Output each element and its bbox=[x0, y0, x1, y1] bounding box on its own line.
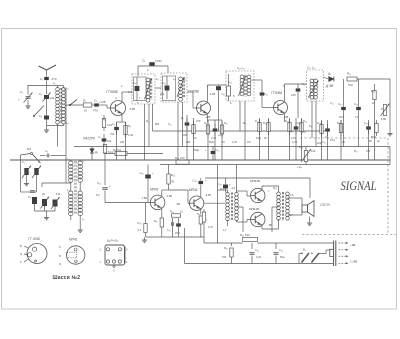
svg-text:5·: 5· bbox=[233, 94, 235, 98]
svg-text:R₂₅: R₂₅ bbox=[138, 221, 142, 225]
svg-text:C₃₂: C₃₂ bbox=[279, 248, 283, 252]
svg-text:R₂₀: R₂₀ bbox=[354, 150, 358, 153]
svg-text:10К: 10К bbox=[311, 149, 316, 153]
svg-text:6,8К: 6,8К bbox=[381, 117, 387, 121]
svg-text:Э: Э bbox=[20, 252, 22, 256]
svg-text:50Д: 50Д bbox=[209, 141, 214, 144]
svg-text:680: 680 bbox=[155, 123, 160, 126]
svg-text:3К: 3К bbox=[171, 180, 174, 184]
svg-text:4,7К: 4,7К bbox=[232, 140, 238, 144]
svg-text:R₁: R₁ bbox=[83, 99, 86, 103]
svg-text:-0,2: -0,2 bbox=[231, 187, 236, 190]
svg-text:3·: 3· bbox=[115, 97, 117, 100]
svg-text:МП41Б: МП41Б bbox=[249, 207, 259, 211]
svg-text:10,0: 10,0 bbox=[330, 138, 336, 142]
svg-text:-9В: -9В bbox=[268, 224, 272, 227]
svg-text:1ГД-39: 1ГД-39 bbox=[320, 203, 330, 207]
svg-text:Д 9В: Д 9В bbox=[325, 84, 334, 88]
svg-text:-0,2В: -0,2В bbox=[205, 194, 211, 197]
svg-text:Тр₂: Тр₂ bbox=[273, 186, 277, 190]
svg-text:240: 240 bbox=[50, 96, 55, 100]
svg-text:0,033: 0,033 bbox=[155, 59, 162, 63]
svg-text:R₈: R₈ bbox=[204, 121, 207, 125]
svg-text:C₇: C₇ bbox=[98, 135, 101, 139]
svg-text:470: 470 bbox=[93, 109, 98, 113]
svg-text:R₉ 51к: R₉ 51к bbox=[113, 148, 122, 152]
svg-text:ГТ 309Б: ГТ 309Б bbox=[28, 237, 40, 241]
svg-text:Б: Б bbox=[20, 244, 22, 248]
svg-text:C₃₀: C₃₀ bbox=[255, 248, 259, 252]
svg-text:МП41Б: МП41Б bbox=[250, 179, 260, 183]
svg-text:ГТ309А: ГТ309А bbox=[271, 91, 282, 95]
svg-text:R₁₅: R₁₅ bbox=[285, 119, 289, 123]
svg-text:C₁₉: C₁₉ bbox=[297, 121, 301, 125]
svg-text:R₂₇: R₂₇ bbox=[154, 219, 158, 223]
svg-text:C₂₆: C₂₆ bbox=[140, 171, 144, 175]
svg-text:0,25: 0,25 bbox=[256, 256, 261, 259]
svg-text:(−)9В: (−)9В bbox=[350, 260, 357, 264]
svg-text:Б: Б bbox=[59, 254, 61, 258]
svg-text:C₁₇ L₁₆: C₁₇ L₁₆ bbox=[307, 66, 315, 70]
svg-text:R₇: R₇ bbox=[181, 116, 184, 120]
svg-text:Э: Э bbox=[59, 262, 61, 266]
svg-text:C₉: C₉ bbox=[142, 59, 145, 63]
svg-text:L₃: L₃ bbox=[66, 121, 69, 125]
svg-text:L₁: L₁ bbox=[53, 81, 56, 85]
svg-text:510: 510 bbox=[348, 83, 353, 87]
svg-text:-7,5В: -7,5В bbox=[141, 197, 147, 200]
svg-text:24К: 24К bbox=[120, 141, 125, 144]
svg-text:4,7К: 4,7К bbox=[208, 226, 213, 229]
svg-text:R₂₆: R₂₆ bbox=[171, 173, 175, 177]
svg-text:C₂₈: C₂₈ bbox=[218, 182, 222, 186]
svg-text:R₄: R₄ bbox=[128, 124, 131, 128]
svg-text:C₁₁: C₁₁ bbox=[228, 80, 232, 84]
svg-text:R₁₂: R₁₂ bbox=[263, 121, 267, 125]
svg-text:5,0: 5,0 bbox=[96, 193, 100, 197]
svg-text:МП41: МП41 bbox=[189, 188, 198, 192]
svg-text:SIGNAL: SIGNAL bbox=[341, 178, 377, 193]
svg-text:R₁₃: R₁₃ bbox=[347, 72, 351, 76]
svg-text:+: + bbox=[109, 184, 111, 188]
svg-text:+C₁₃: +C₁₃ bbox=[218, 133, 223, 137]
svg-text:R₃₁: R₃₁ bbox=[197, 212, 201, 216]
svg-text:C₈: C₈ bbox=[38, 160, 41, 164]
svg-text:C₁₀: C₁₀ bbox=[162, 81, 166, 85]
svg-text:R₁₇: R₁₇ bbox=[309, 125, 313, 128]
svg-text:270: 270 bbox=[196, 119, 201, 123]
svg-text:0,5: 0,5 bbox=[247, 140, 251, 144]
svg-text:R₁₁: R₁₁ bbox=[243, 122, 247, 125]
svg-text:150: 150 bbox=[222, 256, 227, 259]
svg-text:C₆: C₆ bbox=[112, 122, 115, 126]
svg-text:C₂₅: C₂₅ bbox=[193, 179, 197, 183]
svg-text:ГТ309Б: ГТ309Б bbox=[188, 90, 199, 94]
svg-text:R₂₀: R₂₀ bbox=[337, 121, 341, 125]
svg-text:ЦзЛч Ец: ЦзЛч Ец bbox=[107, 239, 118, 243]
svg-text:4,7: 4,7 bbox=[223, 229, 227, 232]
svg-text:C₂₃: C₂₃ bbox=[364, 121, 368, 125]
svg-text:C₁: C₁ bbox=[40, 77, 43, 81]
svg-text:R₂₉: R₂₉ bbox=[170, 211, 174, 214]
svg-text:30,0: 30,0 bbox=[339, 115, 345, 119]
svg-text:360: 360 bbox=[186, 141, 191, 144]
svg-text:R₃₃: R₃₃ bbox=[224, 246, 228, 250]
svg-text:6,2: 6,2 bbox=[138, 228, 142, 232]
svg-text:C₁₂: C₁₂ bbox=[222, 92, 226, 96]
svg-text:C₂₇: C₂₇ bbox=[167, 229, 171, 232]
svg-text:120: 120 bbox=[56, 193, 61, 196]
svg-text:1К: 1К bbox=[84, 109, 88, 113]
svg-text:R₂: R₂ bbox=[103, 118, 106, 122]
svg-text:C₇: C₇ bbox=[22, 160, 25, 164]
svg-text:C₉: C₉ bbox=[28, 195, 31, 199]
svg-text:C₆: C₆ bbox=[45, 149, 48, 153]
svg-text:-1,8В: -1,8В bbox=[166, 195, 172, 198]
svg-text:C₃: C₃ bbox=[39, 92, 42, 96]
svg-text:R₂₁: R₂₁ bbox=[371, 89, 375, 93]
svg-text:L₆: L₆ bbox=[67, 188, 70, 192]
svg-text:R₁₄ 270: R₁₄ 270 bbox=[175, 156, 185, 160]
svg-text:50м: 50м bbox=[280, 256, 285, 259]
svg-text:C₈: C₈ bbox=[133, 81, 136, 85]
svg-text:L₉: L₉ bbox=[173, 77, 175, 81]
svg-text:МП41: МП41 bbox=[150, 188, 159, 192]
svg-text:10в: 10в bbox=[107, 139, 112, 143]
svg-text:R₁₉: R₁₉ bbox=[299, 145, 303, 149]
svg-text:Д₇: Д₇ bbox=[95, 150, 98, 154]
svg-text:C₁₆: C₁₆ bbox=[264, 92, 268, 96]
svg-text:50,0: 50,0 bbox=[371, 135, 377, 139]
svg-text:270: 270 bbox=[366, 150, 371, 153]
svg-text:R₅: R₅ bbox=[146, 120, 149, 123]
svg-text:7·: 7· bbox=[268, 190, 270, 193]
svg-text:R₁₀: R₁₀ bbox=[224, 121, 228, 125]
svg-text:+9В: +9В bbox=[350, 243, 355, 247]
svg-text:R₃₂ 510: R₃₂ 510 bbox=[240, 233, 250, 237]
svg-text:С₂₂: С₂₂ bbox=[330, 102, 334, 105]
svg-text:R₁₈: R₁₈ bbox=[317, 121, 321, 125]
svg-text:В₁б: В₁б bbox=[27, 147, 32, 151]
svg-text:Шасcи №2: Шасcи №2 bbox=[53, 275, 81, 281]
svg-text:Тр₁: Тр₁ bbox=[220, 187, 224, 191]
svg-text:МП41: МП41 bbox=[69, 238, 78, 242]
svg-text:50Д: 50Д bbox=[194, 148, 199, 152]
svg-text:L₈: L₈ bbox=[156, 77, 159, 81]
svg-text:Д₂: Д₂ bbox=[328, 72, 331, 76]
svg-text:C7·: C7· bbox=[355, 115, 359, 119]
svg-text:C₁₁ L₁₂: C₁₁ L₁₂ bbox=[237, 66, 245, 70]
svg-text:С₂₁: С₂₁ bbox=[322, 141, 326, 144]
svg-text:С₂₁: С₂₁ bbox=[325, 135, 329, 139]
svg-text:L₇: L₇ bbox=[82, 217, 85, 221]
svg-text:24Н: 24Н bbox=[291, 94, 296, 97]
svg-text:ГТ309Б: ГТ309Б bbox=[106, 90, 119, 94]
svg-text:5,0: 5,0 bbox=[302, 131, 306, 134]
svg-text:-1,2В: -1,2В bbox=[209, 92, 215, 96]
svg-text:C₂: C₂ bbox=[20, 90, 23, 94]
svg-text:П422РК: П422РК bbox=[83, 136, 96, 140]
svg-text:с кр.: с кр. bbox=[297, 166, 303, 169]
svg-text:+1,5В: +1,5В bbox=[99, 101, 106, 104]
svg-text:2,4К: 2,4К bbox=[128, 133, 134, 137]
svg-text:4К: 4К bbox=[264, 136, 267, 140]
svg-text:4,7К: 4,7К bbox=[211, 136, 217, 140]
svg-text:-15В: -15В bbox=[283, 116, 289, 119]
svg-text:L₂: L₂ bbox=[66, 86, 69, 90]
svg-text:1К: 1К bbox=[372, 101, 375, 105]
svg-text:4,7К: 4,7К bbox=[292, 140, 298, 144]
svg-text:7·: 7· bbox=[18, 98, 20, 102]
svg-text:В₁: В₁ bbox=[303, 248, 306, 252]
svg-text:-0,9В: -0,9В bbox=[129, 108, 135, 111]
svg-text:4,7К: 4,7К bbox=[291, 136, 297, 140]
svg-text:6–8: 6–8 bbox=[128, 90, 133, 94]
svg-text:-5В: -5В bbox=[176, 203, 180, 206]
svg-text:C₂₂: C₂₂ bbox=[354, 102, 358, 106]
svg-text:C₁₅: C₁₅ bbox=[216, 148, 220, 152]
svg-text:20,0: 20,0 bbox=[175, 232, 180, 235]
svg-text:16Д: 16Д bbox=[256, 136, 261, 140]
svg-text:360: 360 bbox=[183, 133, 188, 137]
svg-text:С₁₂: С₁₂ bbox=[168, 123, 172, 126]
svg-text:20в: 20в bbox=[160, 92, 165, 96]
svg-text:R₁₁: R₁₁ bbox=[255, 119, 259, 123]
svg-text:L₁₀: L₁₀ bbox=[183, 77, 186, 81]
svg-text:C₅: C₅ bbox=[94, 99, 97, 103]
svg-text:C₁₇: C₁₇ bbox=[302, 82, 306, 86]
svg-text:R₁₆: R₁₆ bbox=[303, 119, 307, 123]
svg-text:С₁₉: С₁₉ bbox=[290, 130, 294, 133]
